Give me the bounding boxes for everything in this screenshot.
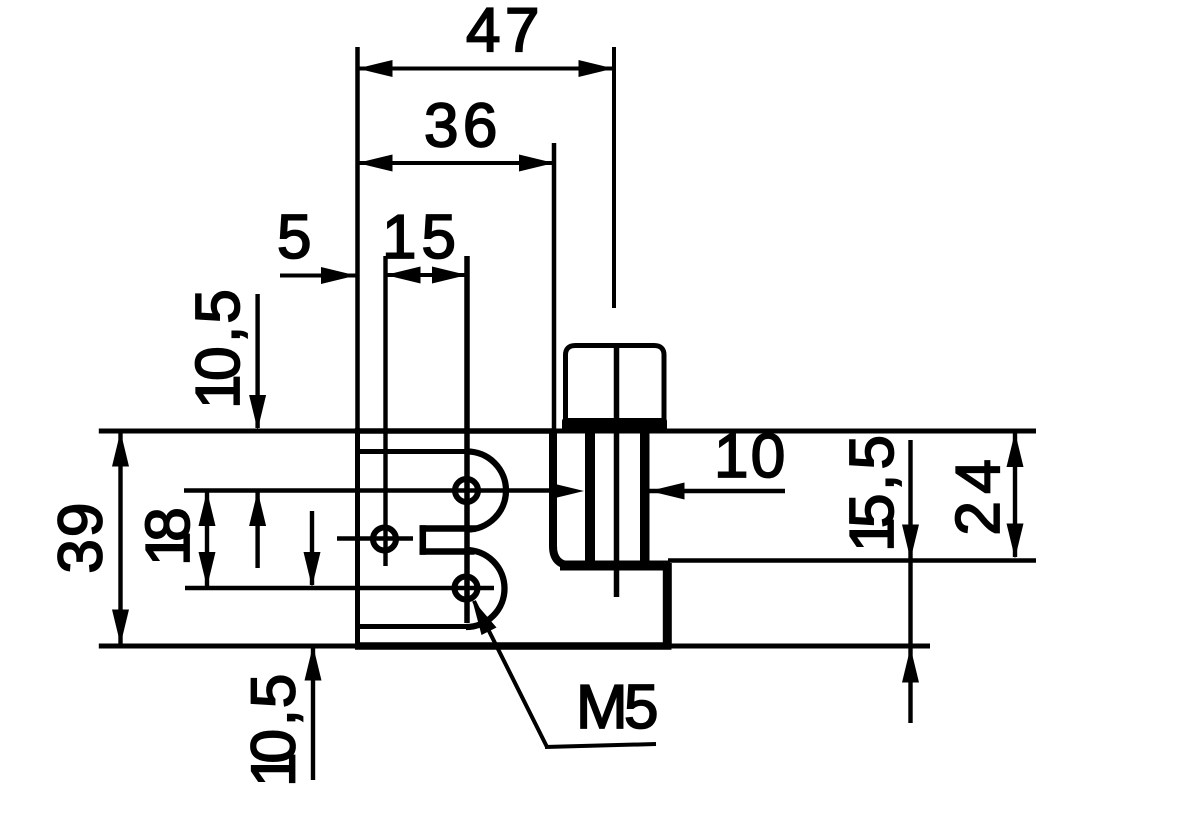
wire centerline y=490.5 upper hole / 18 top extension — [184, 488, 553, 492]
dimension 36 line — [358, 161, 555, 165]
svg-text:47: 47 — [466, 0, 539, 65]
wire extension line bolt axis top (x=613.5) — [612, 47, 616, 308]
dimension 47 line — [358, 67, 614, 71]
bolt shaft left thread bar — [585, 433, 595, 566]
svg-text:10,5: 10,5 — [240, 674, 309, 787]
bolt axis line — [614, 345, 620, 597]
arrowhead 39 top — [112, 432, 129, 467]
svg-text:36: 36 — [424, 92, 497, 161]
arrowhead 39 bottom — [112, 610, 129, 645]
arrowhead 10,5 top pointing up — [249, 491, 266, 526]
arrowhead 10,5 top pointing down — [249, 395, 266, 430]
part lower cutout arc — [466, 550, 505, 627]
svg-text:18: 18 — [134, 507, 203, 566]
arrowhead 10,5 bottom pointing down — [304, 552, 321, 587]
arrowhead 5 (points right at part edge) — [321, 267, 356, 284]
svg-text:15: 15 — [382, 203, 456, 272]
svg-text:39: 39 — [47, 503, 116, 574]
dimension 15,5 line — [908, 440, 912, 644]
svg-text:5: 5 — [277, 203, 311, 272]
arrowhead 10 right pointing left — [650, 483, 685, 500]
dimension 15,5 lower tail — [908, 648, 912, 723]
dimension 10,5 bottom line lower tail — [311, 647, 315, 780]
wire centerline left hole horizontal — [337, 536, 413, 540]
bolt head outline — [566, 346, 665, 434]
arrowhead 15 left — [386, 267, 421, 284]
wire extension line x=467 through holes — [464, 256, 470, 623]
wire extension line left of part (x=357.5 top) — [355, 47, 360, 428]
arrowhead 47 right — [579, 60, 614, 77]
arrowhead 47 left — [358, 60, 393, 77]
wire bottom horizontal line y=646 — [99, 644, 930, 649]
bolt head bottom thick bar — [562, 418, 667, 433]
part outline right edge and rounded corner to step bar — [553, 430, 668, 566]
arrowhead M5 leader pointing at lower hole — [472, 599, 497, 635]
wire top horizontal line y=431 — [99, 429, 1036, 434]
wire extension line 36 right (x=554) — [552, 143, 557, 429]
wire step line y=560.5 right — [668, 558, 1036, 562]
arrowhead 15,5 pointing up — [902, 648, 919, 683]
part outline bottom edge thick — [355, 642, 672, 650]
part inner top line — [358, 449, 468, 454]
dimension 10 line right segment — [650, 489, 786, 493]
part notch bottom edge — [420, 548, 475, 555]
part notch top edge — [420, 525, 477, 532]
arrowhead 36 left — [358, 155, 393, 172]
leader line M5 — [474, 601, 547, 747]
arrowhead 15 right — [432, 267, 467, 284]
svg-text:10,5: 10,5 — [184, 289, 253, 409]
svg-text:15,5: 15,5 — [838, 435, 907, 552]
arrowhead 36 right — [519, 155, 554, 172]
leader underline M5 — [545, 744, 656, 747]
part outline left edge — [355, 428, 360, 649]
svg-text:24: 24 — [944, 459, 1013, 535]
dimension 18 line — [205, 492, 209, 586]
hole left circle — [373, 528, 396, 551]
arrowhead 15,5 pointing down — [902, 525, 919, 560]
arrowhead 24 top — [1007, 432, 1024, 467]
part inner bottom line — [358, 624, 467, 629]
bolt shaft right thread bar — [640, 433, 650, 566]
svg-text:M5: M5 — [576, 673, 658, 742]
arrowhead 10,5 bottom pointing up — [305, 646, 322, 681]
wire extension line x=385 through left hole — [383, 256, 387, 566]
part step bar thick — [560, 561, 670, 571]
arrowhead 18 top — [199, 491, 216, 526]
part outline lower right edge — [663, 563, 672, 648]
dimension 15 line — [386, 273, 468, 277]
hole upper circle — [455, 479, 478, 502]
part notch left edge — [420, 525, 427, 555]
hole lower circle — [455, 577, 478, 600]
arrowhead 18 bottom — [199, 552, 216, 587]
arrowhead 24 bottom — [1007, 524, 1024, 559]
dimension 24 line — [1013, 433, 1017, 557]
arrowhead 10 left pointing right — [549, 483, 584, 500]
dimension 10,5 bottom line upper segment — [310, 511, 314, 585]
dimension 10,5 top line lower tail — [255, 492, 259, 568]
wire centerline y=588 lower hole / 18 bottom extension — [185, 586, 494, 590]
dimension 5 line — [280, 274, 356, 278]
dimension 10,5 top line upper segment — [255, 294, 259, 428]
part outline top edge — [355, 428, 556, 434]
part upper cutout arc — [467, 452, 506, 530]
dimension 39 line — [118, 433, 122, 644]
